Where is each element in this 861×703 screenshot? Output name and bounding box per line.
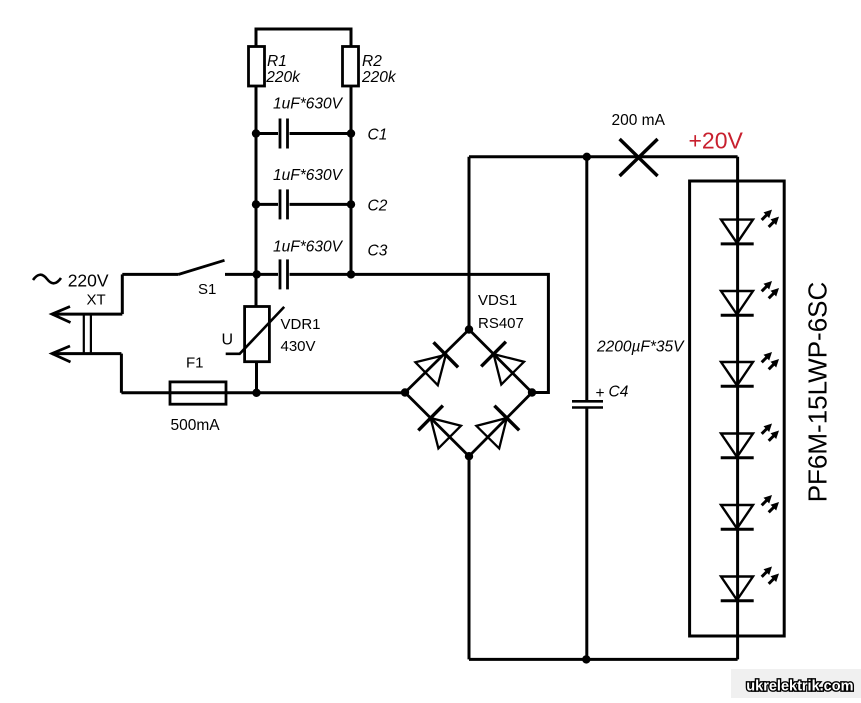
svg-text:500mA: 500mA <box>171 417 221 434</box>
svg-text:U: U <box>222 332 234 349</box>
svg-text:2200µF*35V: 2200µF*35V <box>596 339 685 356</box>
svg-text:C2: C2 <box>368 198 388 215</box>
svg-text:1uF*630V: 1uF*630V <box>273 96 344 113</box>
svg-text:220k: 220k <box>361 69 397 86</box>
svg-text:C1: C1 <box>368 127 388 144</box>
svg-text:+: + <box>596 385 605 402</box>
svg-text:ukrelektrik.com: ukrelektrik.com <box>746 679 853 695</box>
svg-text:+20V: +20V <box>689 128 744 154</box>
svg-text:C3: C3 <box>368 243 388 260</box>
svg-text:XT: XT <box>87 292 106 309</box>
svg-text:R1: R1 <box>267 53 287 70</box>
svg-text:F1: F1 <box>186 355 204 372</box>
svg-text:1uF*630V: 1uF*630V <box>273 239 344 256</box>
svg-text:220V: 220V <box>68 271 109 291</box>
svg-text:S1: S1 <box>198 281 216 298</box>
svg-text:200 mA: 200 mA <box>612 112 666 129</box>
svg-text:RS407: RS407 <box>478 315 524 332</box>
svg-text:C4: C4 <box>609 384 629 401</box>
svg-text:220k: 220k <box>265 69 301 86</box>
svg-text:PF6M-15LWP-6SC: PF6M-15LWP-6SC <box>803 282 833 503</box>
svg-text:1uF*630V: 1uF*630V <box>273 167 344 184</box>
svg-text:R2: R2 <box>362 53 382 70</box>
svg-text:VDS1: VDS1 <box>478 292 517 309</box>
svg-text:VDR1: VDR1 <box>281 316 321 333</box>
svg-text:430V: 430V <box>281 338 316 355</box>
